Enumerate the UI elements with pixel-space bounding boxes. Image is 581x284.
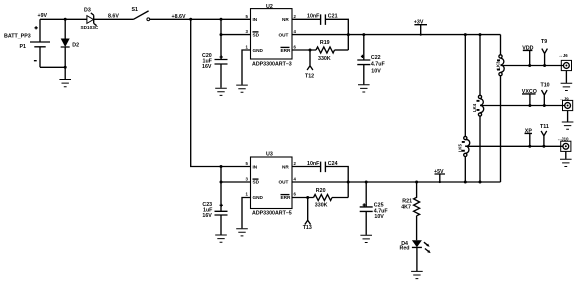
diode D2	[61, 19, 79, 67]
node junction +3V to LK4 column	[479, 33, 482, 36]
wire LK4 down to +5V rail	[479, 116, 481, 182]
capacitor C24 10nF	[307, 161, 338, 172]
node junction C22	[362, 33, 365, 36]
wire row VVCO from LK4	[480, 105, 565, 107]
wire U3 ERR row	[292, 197, 314, 199]
wire C24 down to OUT/ERR column	[325, 167, 348, 198]
node junction T9 tap	[543, 64, 546, 67]
svg-text:S1: S1	[132, 7, 139, 13]
svg-text:ADP3300ART–5: ADP3300ART–5	[252, 211, 292, 217]
test point T9	[541, 39, 547, 66]
svg-text:P1: P1	[20, 44, 27, 50]
link LK4	[472, 95, 484, 116]
ground (C25)	[360, 235, 372, 242]
node junction R21	[415, 181, 418, 184]
link LK3	[495, 55, 504, 76]
ground (J9)	[562, 111, 574, 130]
svg-text:10nF: 10nF	[307, 161, 320, 167]
svg-text:Red: Red	[400, 245, 410, 251]
wire U2 GND pin to ground	[242, 50, 251, 85]
node junction R20/C24 on OUT	[347, 181, 350, 184]
svg-text:330K: 330K	[318, 56, 331, 62]
svg-text:↔J6: ↔J6	[559, 53, 569, 58]
svg-text:ERR: ERR	[281, 195, 292, 200]
test point T11	[540, 124, 549, 146]
op-amp U3 regulator ADP3300ART-5	[246, 151, 297, 216]
connector J9	[560, 96, 573, 110]
svg-text:R21: R21	[402, 198, 412, 204]
net VDD	[522, 45, 533, 65]
wire +3V rail corner down to LK3	[500, 35, 502, 55]
svg-text:NR: NR	[282, 164, 289, 169]
svg-text:330K: 330K	[315, 202, 328, 208]
node junction SD tap	[220, 33, 223, 36]
test point T12	[305, 50, 314, 79]
node junction VDD tick	[528, 64, 531, 67]
svg-text:GND: GND	[253, 195, 264, 200]
svg-text:OUT: OUT	[279, 180, 289, 185]
node junction T13 tap	[306, 196, 309, 199]
node junction +8.6V feed	[189, 18, 192, 21]
svg-text:+8.6V: +8.6V	[172, 14, 186, 20]
wire SD row to C20 branch	[221, 34, 251, 36]
node junction T11 tap	[542, 145, 545, 148]
connector J6	[559, 53, 572, 71]
wire +3V rail down to LK5	[464, 35, 466, 137]
svg-text:16V: 16V	[202, 64, 212, 70]
wire +3V rail down to LK4	[479, 35, 481, 96]
ground (U3 GND)	[236, 229, 248, 236]
ground (D4)	[411, 271, 423, 278]
test point T10	[541, 82, 550, 105]
wire U3 GND pin to ground	[242, 198, 251, 229]
node junction R19/C21 on OUT	[347, 33, 350, 36]
svg-text:LK4: LK4	[472, 103, 477, 112]
net +3V	[414, 20, 427, 36]
svg-text:OUT: OUT	[279, 32, 289, 37]
svg-text:BATT_PP3: BATT_PP3	[4, 34, 31, 40]
svg-text:8.6V: 8.6V	[108, 14, 119, 20]
node junction +3V to LK5 column	[464, 33, 467, 36]
ground (C22)	[358, 85, 370, 92]
net VVCO	[522, 89, 537, 106]
resistor R20 330K	[314, 188, 349, 208]
wire top rail from battery to D3	[40, 18, 87, 20]
wire U2 OUT +3V rail	[292, 34, 501, 36]
svg-text:IN: IN	[253, 164, 258, 169]
wire U2 ERR row	[292, 49, 316, 51]
node junction VVCO tick	[528, 104, 531, 107]
svg-text:U3: U3	[266, 151, 273, 157]
capacitor C25 4.7uF	[360, 182, 389, 235]
node junction C25	[365, 181, 368, 184]
svg-text:T12: T12	[305, 73, 314, 79]
op-amp U2 regulator ADP3300ART-3	[246, 4, 297, 68]
svg-text:SD103C: SD103C	[81, 25, 99, 30]
node junction SD tap bottom	[220, 181, 223, 184]
svg-text:C21: C21	[328, 14, 338, 20]
node junction C20 top	[220, 18, 223, 21]
wire LK3 down to +5V rail	[500, 76, 502, 182]
capacitor C21 10nF	[307, 13, 338, 25]
svg-text:D2: D2	[72, 43, 79, 49]
svg-text:T9: T9	[541, 39, 547, 45]
node junction XP tick	[528, 145, 531, 148]
LED D4 Red	[400, 240, 431, 271]
node junction T12 tap	[309, 49, 312, 52]
svg-text:U2: U2	[266, 4, 273, 10]
wire U3 NR to C24	[292, 166, 321, 168]
svg-text:4K7: 4K7	[401, 205, 411, 211]
battery P1 BATT_PP3	[4, 19, 65, 67]
net +5V	[434, 169, 445, 183]
svg-text:10V: 10V	[371, 68, 381, 74]
wire D3 to S1	[94, 18, 134, 20]
svg-text:GND: GND	[253, 48, 264, 53]
ground (C20)	[215, 88, 227, 95]
capacitor C23	[202, 167, 227, 235]
svg-text:10V: 10V	[374, 214, 384, 220]
ground (U2 GND)	[236, 85, 248, 92]
svg-text:T11: T11	[540, 124, 549, 130]
resistor R21 4K7	[401, 182, 419, 240]
svg-text:16V: 16V	[202, 213, 212, 219]
wire U3 OUT +5V rail	[292, 181, 501, 183]
node junction dot battery/D2 bottom	[64, 66, 67, 69]
wire row VDD from LK3	[501, 65, 564, 67]
connector J10	[557, 137, 571, 152]
ground (battery)	[59, 67, 71, 86]
svg-text:LK5: LK5	[457, 143, 462, 152]
svg-text:SD: SD	[253, 32, 260, 37]
link LK5	[457, 136, 469, 156]
switch S1	[132, 7, 150, 21]
node junction dot D2 top	[64, 18, 67, 21]
ground (J10)	[560, 151, 572, 166]
diode D3 SD103C	[81, 7, 99, 30]
svg-text:D3: D3	[84, 7, 91, 13]
ground (J6)	[561, 71, 573, 91]
wire SD row bottom	[221, 181, 251, 183]
svg-text:C22: C22	[371, 55, 381, 61]
ground (C23)	[215, 235, 227, 242]
wire U2 NR to C21	[292, 18, 321, 20]
svg-text:R20: R20	[316, 188, 326, 194]
capacitor C22 4.7uF	[357, 35, 385, 85]
svg-text:SD: SD	[253, 180, 260, 185]
svg-text:ADP3300ART–3: ADP3300ART–3	[252, 62, 292, 68]
svg-text:ERR: ERR	[281, 48, 292, 53]
wire feed down to U3 IN	[191, 19, 251, 166]
node junction C23 top	[220, 165, 223, 168]
net XP	[525, 128, 533, 146]
resistor R19 330K	[316, 40, 348, 62]
svg-text:T10: T10	[541, 82, 550, 88]
test point T13	[303, 198, 312, 232]
node junction +5V to LK5 column	[464, 181, 467, 184]
svg-text:R19: R19	[320, 40, 330, 46]
svg-text:IN: IN	[253, 17, 258, 22]
svg-text:10nF: 10nF	[307, 13, 320, 19]
wire C21 down to OUT/ERR column	[325, 19, 348, 50]
svg-text:+9V: +9V	[38, 13, 48, 19]
svg-text:T13: T13	[303, 225, 312, 231]
svg-text:NR: NR	[282, 17, 289, 22]
wire S1 to U2 IN	[150, 18, 251, 20]
node junction +5V to LK4 column	[479, 181, 482, 184]
wire LK5 down to +5V rail	[464, 157, 466, 183]
capacitor C20	[202, 19, 228, 88]
node junction T10 tap	[543, 104, 546, 107]
svg-text:LK3: LK3	[495, 61, 500, 70]
svg-text:4.7uF: 4.7uF	[371, 62, 386, 68]
wire row XP from LK5	[465, 145, 563, 147]
